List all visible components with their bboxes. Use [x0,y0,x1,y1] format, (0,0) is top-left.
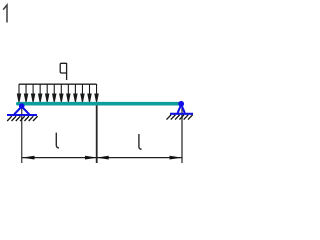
extension line right (node C) [181,108,183,163]
span label l (left) [56,133,59,148]
right pin support (blue) [170,101,193,113]
distributed load w1: top line [19,83,97,85]
load value label q [60,63,66,80]
left pin support (blue) [7,104,37,115]
dimension arrow right-outer [170,156,183,160]
extension line center (node B) [96,105,98,163]
left support hatching [7,116,37,121]
span label l (right) [139,134,142,149]
dimension line [22,157,182,159]
right support hatching [167,115,193,120]
beam (teal member) [18,102,182,106]
distributed load w1: arrows [17,84,98,102]
extension line left (node A) [21,106,23,163]
dimension arrow center-right [96,156,109,160]
dimension arrow center-left [85,156,98,160]
figure number label 1 [3,5,7,23]
dimension arrow left-outer [22,156,35,160]
